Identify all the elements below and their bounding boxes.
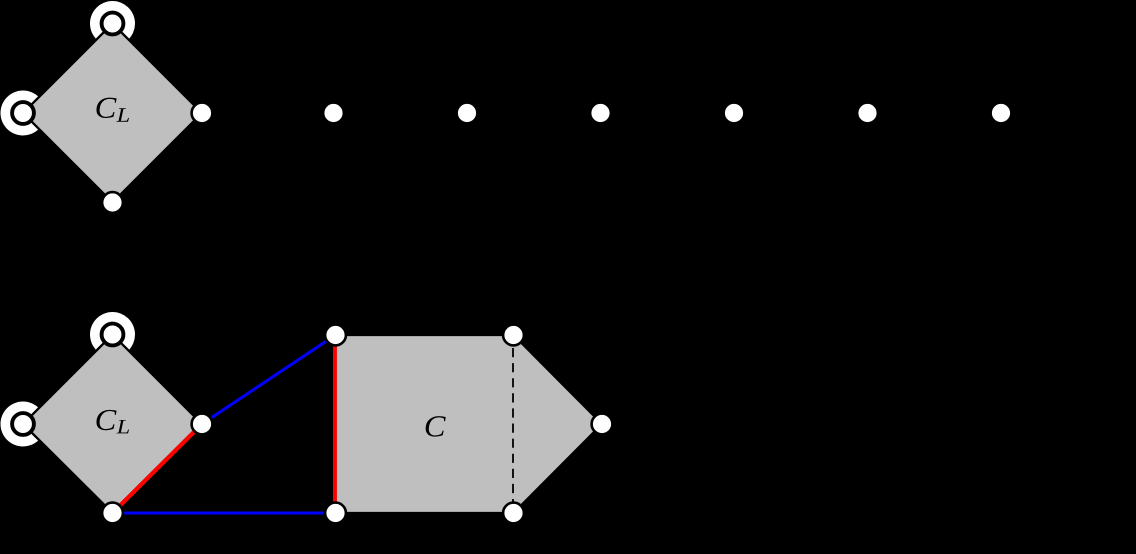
node: pentagon top-left vertex [325,325,346,346]
cycle C (pentagon, shaded) [336,335,603,513]
node: pentagon right vertex [592,414,613,435]
wire: path edges of upper row (black) [202,112,1001,114]
label C (pentagon) [426,416,446,436]
circled vertex ring (top of upper diamond) [102,13,124,35]
circled vertex ring (left of lower diamond) [12,413,34,435]
node: bottom vertex of lower diamond [102,503,123,524]
node: pentagon bottom-right vertex [503,503,524,524]
circled vertex ring (left of upper diamond) [12,102,34,124]
blue edge diamond right vertex to pentagon top-left [202,335,336,424]
cycle C_L (lower diamond, shaded) [23,335,202,514]
halo around circled vertex (left of upper diamond) [1,91,46,136]
node: path vertex 2 (upper row) [457,103,478,124]
node: bottom vertex of upper diamond [102,192,123,213]
node: path vertex 5 (upper row) [857,103,878,124]
cycle C_L (upper diamond, shaded) [23,24,202,203]
halo around circled vertex (top of lower diamond) [90,312,135,357]
node: path vertex 3 (upper row) [590,103,611,124]
node: pentagon bottom-left vertex [325,503,346,524]
node: right vertex of lower diamond [192,414,213,435]
red edge on lower-right side of lower diamond [113,424,203,513]
halo around circled vertex (top of upper diamond) [90,1,135,46]
red edge on left side of pentagon [333,336,337,512]
node: right vertex of upper diamond [192,103,213,124]
node: path vertex 4 (upper row) [724,103,745,124]
halo around circled vertex (left of lower diamond) [1,402,46,447]
circled vertex ring (top of lower diamond) [102,324,124,346]
label C_L (upper diamond) [96,98,129,122]
node: path vertex 1 (upper row) [323,103,344,124]
blue edge diamond bottom vertex to pentagon bottom-left [113,512,336,515]
dashed chord of pentagon [512,348,514,507]
label C_L (lower diamond) [96,410,129,434]
node: path vertex 6 (upper row) [991,103,1012,124]
node: pentagon top-right vertex [503,325,524,346]
